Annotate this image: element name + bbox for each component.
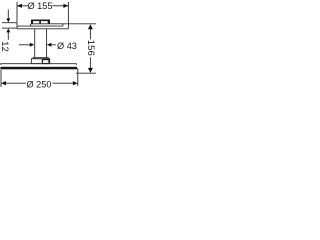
pipe flange [33, 58, 48, 59]
dimension Ø43 right arrow [47, 43, 52, 47]
dimension 156 up arrow [89, 29, 91, 39]
connector detail square [42, 60, 49, 64]
dimension 156 down arrow [89, 57, 91, 68]
svg-text:12: 12 [0, 41, 10, 52]
dimension Ø155 extension line left [16, 2, 18, 29]
shower head spray disc [0, 67, 77, 70]
ceiling connector block [31, 20, 50, 24]
dimension Ø43 left arrow [19, 44, 31, 46]
dimension Ø155 left arrow [17, 4, 22, 8]
dimension Ø155 extension line right [67, 2, 69, 29]
shower head top line [1, 64, 77, 65]
pipe [35, 29, 47, 58]
dimension Ø250 extension line right [77, 68, 79, 86]
extension line 156 bottom [76, 72, 96, 74]
dimension Ø155 right arrow [63, 4, 68, 8]
dimension 12 down arrow [7, 10, 9, 19]
dimension Ø250 left arrow [1, 81, 6, 85]
extension line 156 top [68, 23, 96, 25]
dimension Ø155 line [17, 5, 69, 7]
dimension Ø250 right arrow [73, 81, 78, 85]
svg-text:Ø 155: Ø 155 [27, 1, 52, 11]
dimension 12 up arrow [7, 32, 9, 39]
svg-text:156: 156 [85, 40, 96, 56]
svg-text:Ø 43: Ø 43 [57, 41, 77, 51]
dimension 12 ticks [2, 23, 17, 28]
connector housing [31, 59, 49, 64]
dimension Ø250 extension line left [0, 70, 2, 87]
ceiling plate [17, 24, 68, 29]
svg-text:Ø 250: Ø 250 [26, 79, 51, 89]
